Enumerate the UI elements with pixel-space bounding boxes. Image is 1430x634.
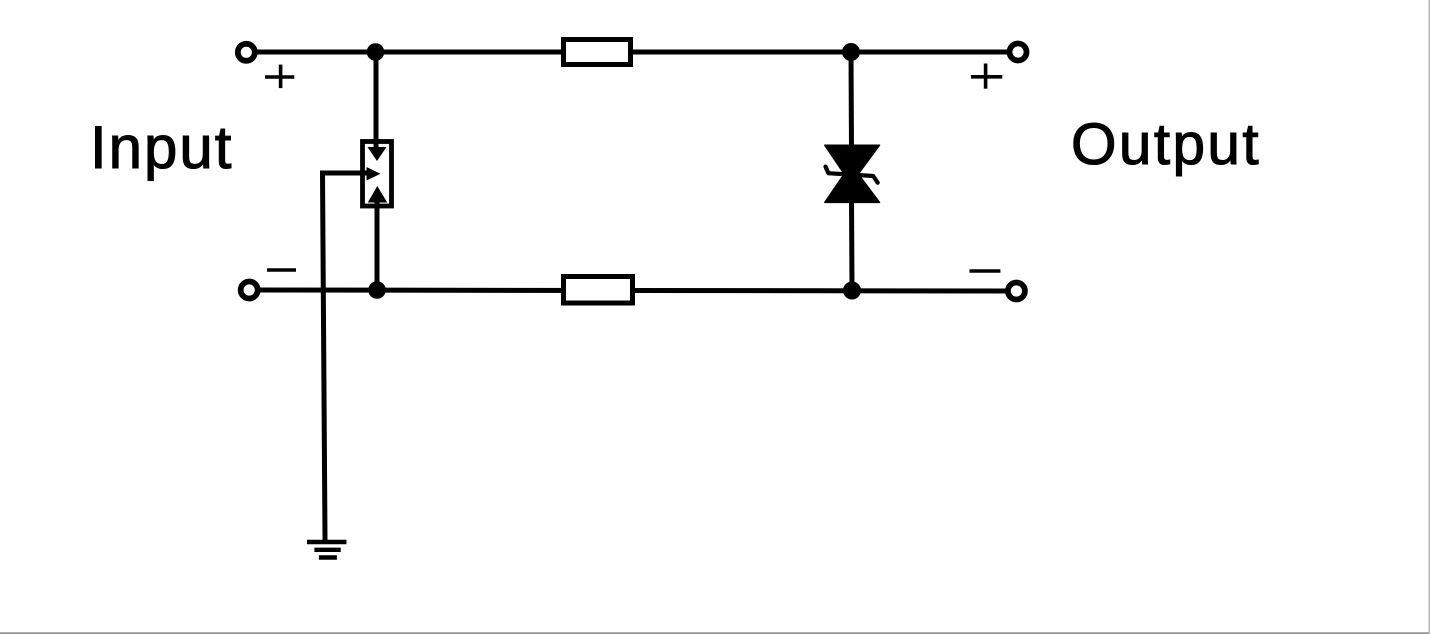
TVS diode bidirectional bowtie bbox=[825, 145, 880, 202]
wire GDT bottom lead bbox=[375, 200, 380, 290]
label Output - polarity bbox=[970, 269, 1001, 273]
TVS diode zener left tick bbox=[826, 167, 829, 174]
gas discharge tube top electrode arrow bbox=[368, 147, 387, 161]
ground symbol bbox=[307, 542, 347, 558]
junction dot top-right node bbox=[842, 43, 860, 61]
bottom scan edge artifact bbox=[0, 632, 1430, 634]
TVS diode zener bar bbox=[828, 173, 874, 176]
label Input + polarity bbox=[265, 65, 294, 89]
gas discharge tube body bbox=[363, 142, 392, 207]
label Input - polarity bbox=[267, 268, 296, 272]
wire bottom rail (Input - to Output -) bbox=[259, 290, 1006, 291]
junction dot top-left node bbox=[367, 43, 385, 61]
wire top rail (Input + to Output +) bbox=[257, 50, 1008, 55]
wire TVS top lead bbox=[849, 52, 855, 150]
svg-text:Output: Output bbox=[1071, 112, 1261, 177]
resistor R1 (top series, IEC box) bbox=[564, 40, 631, 65]
terminal Output + bbox=[1010, 44, 1027, 61]
label Output + polarity bbox=[971, 64, 1002, 89]
junction dot bottom-right node bbox=[843, 282, 861, 300]
gas discharge tube ground electrode arrow bbox=[367, 167, 381, 181]
right scan edge artifact bbox=[1429, 0, 1430, 634]
terminal Input + bbox=[238, 44, 255, 61]
wire ground horizontal segment and vertical drop bbox=[323, 173, 368, 540]
wire GDT top lead bbox=[374, 52, 379, 152]
wire TVS bottom lead bbox=[849, 198, 855, 290]
TVS diode zener right tick bbox=[873, 176, 878, 183]
resistor R2 (bottom series, IEC box) bbox=[564, 277, 633, 304]
junction dot bottom-left node bbox=[368, 281, 386, 299]
terminal Output - bbox=[1008, 283, 1025, 300]
gas discharge tube bottom electrode arrow bbox=[368, 186, 387, 203]
svg-text:Input: Input bbox=[90, 114, 233, 181]
terminal Input - bbox=[241, 282, 258, 299]
